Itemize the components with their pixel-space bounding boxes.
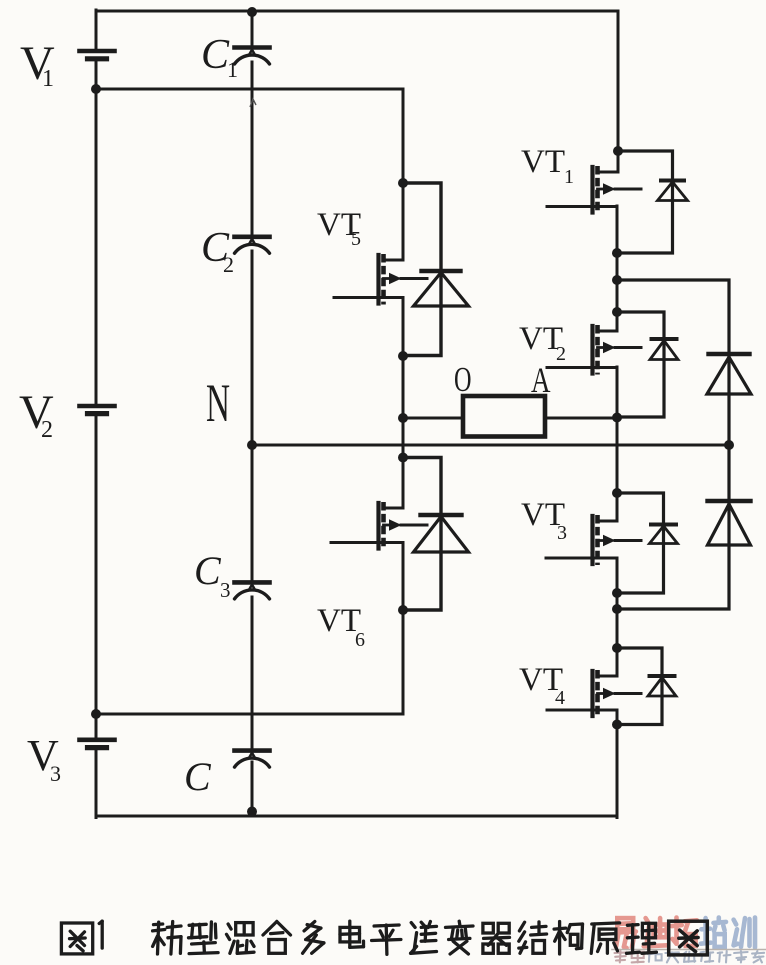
capacitor C1 [235,48,270,65]
battery V2 [80,406,115,414]
junction VT1 source [612,248,622,258]
wire bottom rail [96,815,617,818]
watermark small text [615,951,765,962]
transistor VT5 (MOSFET) [334,254,427,305]
junction clamp top tap [612,275,622,285]
capacitor C2 [235,237,270,254]
watermark big text [612,918,766,950]
diode VT1 antiparallel [658,181,688,201]
junction V3 tap [91,709,101,719]
diode clamp lower [708,501,751,545]
svg-text:3: 3 [557,522,567,544]
wire VT5 bypass loop [403,183,441,356]
wire right vertical top [617,11,620,172]
junction top rail / center rail [247,7,257,17]
wire VT5 source to VT6 drain [402,298,405,509]
wire N horizontal [252,444,729,447]
diode clamp upper [707,354,751,394]
wire load A tap [545,417,617,420]
label VT5 [317,207,361,250]
svg-text:6: 6 [355,629,365,651]
junction VT3 source [612,588,622,598]
wire VT1 source to VT2 drain [616,206,619,331]
junction VT6 source [398,605,408,615]
diode VT6 antiparallel (large) [414,515,469,552]
junction VT2 drain [612,307,622,317]
junction VT6 drain [398,453,408,463]
wire VT6 bypass loop [403,458,441,611]
caption 图1 [61,921,102,954]
wire left rail [95,10,98,818]
svg-text:1: 1 [42,66,54,92]
transistor VT1 (MOSFET) [547,166,641,214]
svg-text:3: 3 [220,578,231,602]
svg-text:2: 2 [556,343,566,365]
svg-text:2: 2 [41,417,53,443]
capacitor C [235,751,270,768]
junction bottom rail / center rail [247,807,257,817]
label VT1 [521,144,574,188]
wire VT2 bypass loop [617,312,664,417]
wire top rail [96,10,618,13]
capacitor C3 [235,582,270,599]
svg-text:5: 5 [351,228,361,250]
transistor VT2 (MOSFET) [547,325,641,375]
junction VT4 drain [612,643,622,653]
transistor VT4 (MOSFET) [547,670,641,717]
junction O tap [398,413,408,423]
wire clamp chain bottom [617,445,729,609]
junction VT3 drain [612,488,622,498]
label V2 [19,386,54,443]
junction VT5 source [398,351,408,361]
label V3 [27,731,61,786]
transistor VT3 (MOSFET) [546,515,641,565]
svg-text:1: 1 [227,57,238,82]
battery V3 [80,740,115,748]
junction V1 tap [91,84,101,94]
wire VT1 bypass loop [617,151,673,253]
label VT2 [519,321,566,365]
label VT3 [521,497,567,544]
wire VT3 source to VT4 drain [616,558,619,676]
wire VT6 source to V3 tap [96,543,403,715]
junction N on center rail [247,440,257,450]
wire VT4 bypass loop [617,648,662,725]
diode VT5 antiparallel (large) [414,271,469,306]
wire VT4 source to bottom rail [616,710,619,818]
label C2 [201,225,234,277]
label V1 [20,37,55,92]
svg-text:3: 3 [50,761,61,786]
label C1 [201,32,238,82]
label VT6 [317,603,365,651]
svg-text:C: C [201,32,230,78]
scan mark near C1 [250,99,256,107]
svg-text:N: N [206,373,230,433]
svg-text:2: 2 [223,252,234,277]
wire clamp chain top [617,280,729,445]
svg-text:C: C [194,548,222,593]
svg-text:O: O [454,360,472,399]
wire V1 tap to VT5 drain [96,89,403,260]
node A junction [612,413,622,423]
battery V1 [80,51,115,59]
transistor VT6 (MOSFET) [331,502,427,550]
junction clamp chain / N wire [724,440,734,450]
svg-text:A: A [531,360,551,400]
diode VT3 antiparallel [650,525,678,544]
svg-text:VT: VT [521,144,565,180]
wire VT2 source to VT3 drain [616,367,619,521]
junction clamp bottom tap [612,604,622,614]
label C3 [194,548,231,602]
junction VT1 drain [613,146,623,156]
caption title text [153,921,708,955]
label A [531,360,551,400]
wire load O tap [403,417,463,420]
svg-text:C: C [184,754,212,799]
label N [206,373,230,433]
label VT4 [519,662,565,709]
label C [184,754,212,799]
diode VT2 antiparallel [650,339,678,360]
label O [454,360,472,399]
wire center rail [251,12,254,816]
junction VT5 drain [398,178,408,188]
svg-text:4: 4 [555,687,565,709]
load box O-A [463,396,545,437]
wire VT3 bypass loop [617,493,664,593]
diode VT4 antiparallel [648,676,676,696]
svg-text:1: 1 [564,166,574,188]
junction VT4 source [612,720,622,730]
